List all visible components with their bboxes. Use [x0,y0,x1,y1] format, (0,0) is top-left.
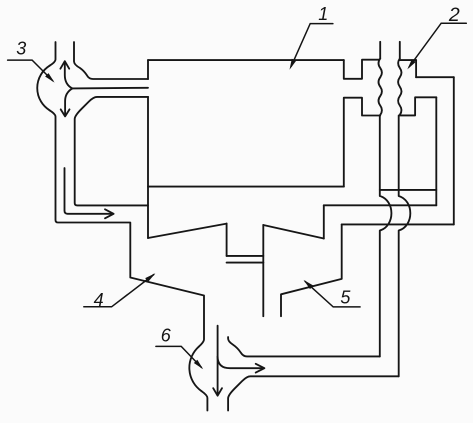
descending duct right wall with crossing hop [399,115,411,376]
inlet pipe above coupling right [399,42,401,59]
flexible sleeve 2 right wavy wall [398,59,401,116]
chute 5 [281,224,342,316]
fan 6 inlet right wall, top-right arc, outlet pipe top line [228,337,380,356]
chamber floor left incline [148,224,227,238]
central channel left wall [226,224,228,256]
label 6 leader [156,346,202,367]
upper duct inner wall to splitter point [72,87,148,90]
horizontal duct y205 [324,204,437,206]
gate slide upper line [227,255,264,257]
fan 6 internal down arrow [217,326,219,396]
right outer vertical duct wall [453,77,455,224]
fan 6 internal branch arrow to right [218,357,263,369]
label 2 leader [409,23,466,67]
svg-text:2: 2 [448,4,460,26]
riser x416 [415,60,417,77]
chamber 1 left edge upper [147,60,149,79]
right floor riser to outlet duct [323,205,325,238]
chamber 1 top edge [148,59,344,61]
chamber 1 right edge lower with outlet step [344,98,380,187]
flexible sleeve 2 left wavy wall [379,59,382,116]
fan 6 left body arc [189,347,201,391]
coupling right top shelf [400,59,416,61]
horizontal duct y190 [380,189,437,191]
splitter upper curve with up arrow [65,62,73,89]
label 3 arrowhead [45,73,54,82]
chamber floor right incline [263,225,324,239]
fan 6 bottom pipe left wall with flare [202,391,208,410]
fan 6 outlet pipe bottom line curving into bottom pipe right wall [228,376,399,410]
chamber 1 bottom edge [148,186,344,188]
top connector y77 [416,76,454,78]
svg-text:4: 4 [94,290,104,310]
label 1 arrowhead [290,59,297,70]
lower duct wall curving into down pipe right wall, then under-chamber duct [75,97,148,205]
inlet pipe above coupling left [379,42,381,59]
label 2 arrowhead [407,59,415,69]
label 6 arrowhead [194,360,203,370]
central channel right wall [262,225,264,316]
label 4 arrowhead [145,273,155,282]
horizontal duct y224 [342,223,454,225]
label 5 leader [305,281,360,307]
flow arrow in left down pipe [65,168,113,214]
blower B3 left body arc [37,66,49,111]
label 5 arrowhead [304,280,314,289]
right inner vertical duct wall [435,97,437,205]
blower B3 inlet pipe left wall with flare [50,42,56,66]
chamber 1 right edge upper with outlet step [344,60,379,79]
svg-text:3: 3 [16,38,26,58]
coupling right flange [401,97,437,115]
gate slide lower line [227,262,264,264]
svg-text:5: 5 [340,288,351,308]
label 3 leader [8,60,53,81]
blower B3 inlet pipe right wall, top-right arc, upper duct outer wall [74,42,148,79]
label 1 leader [291,24,333,67]
chamber 1 left edge lower continuing to floor [147,97,149,238]
svg-text:6: 6 [161,326,172,346]
down pipe left wall, funnel 4 outer wall, into fan 6 [50,110,204,346]
label 4 leader [84,275,154,307]
svg-text:1: 1 [318,4,328,24]
descending duct left wall with crossing hop [380,116,392,357]
splitter lower curve with down arrow [65,88,72,115]
